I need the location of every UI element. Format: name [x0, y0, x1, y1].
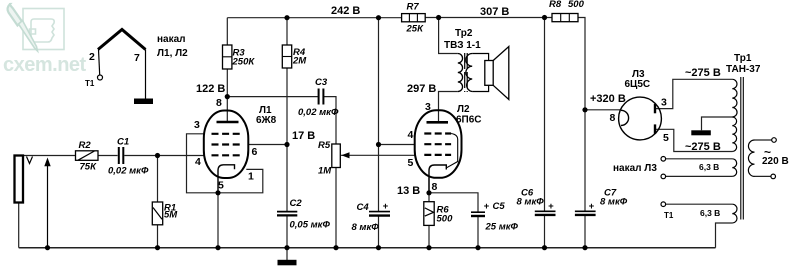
node dot L2 screen	[376, 142, 381, 147]
capacitor C6 8uF polarized	[535, 210, 556, 212]
wire R8 right to +320 corner	[578, 18, 585, 110]
wire C7 top lead	[584, 110, 586, 212]
svg-text:Л2: Л2	[457, 104, 470, 115]
wire C7 bottom to rail	[584, 215, 586, 248]
svg-text:+320 В: +320 В	[590, 93, 626, 105]
svg-text:Тр1: Тр1	[734, 53, 752, 64]
svg-text:Т1: Т1	[85, 79, 95, 88]
wire R2 to C1	[98, 155, 118, 157]
svg-text:накал: накал	[157, 34, 186, 45]
wire 242V top rail	[227, 17, 401, 19]
svg-text:8: 8	[610, 112, 616, 124]
svg-text:5: 5	[218, 180, 224, 192]
svg-text:8 мкФ: 8 мкФ	[517, 197, 545, 208]
svg-text:C5: C5	[493, 201, 506, 212]
node dot L1 cathode	[215, 190, 220, 195]
transformer Tp2 TVZ1-1	[458, 47, 509, 100]
resistor R6 500	[424, 202, 434, 226]
Tp2 core	[465, 53, 468, 92]
wire C5 bottom to rail	[477, 216, 479, 248]
Tp2 primary winding	[458, 54, 463, 92]
svg-text:8 мкФ: 8 мкФ	[600, 197, 628, 208]
wire Tp2 primary bottom lead to L2 plate	[439, 92, 458, 123]
svg-text:накал Л3: накал Л3	[613, 163, 657, 174]
capacitor C1 0.02	[119, 147, 124, 164]
resistor R3 250K	[223, 45, 232, 69]
wire R5 wiper to L2 grid pin5	[341, 154, 415, 156]
wire R1 top lead	[157, 156, 159, 203]
wire heater L3 winding leads	[666, 159, 733, 177]
svg-text:0,05 мкФ: 0,05 мкФ	[290, 220, 331, 231]
svg-text:13 В: 13 В	[397, 185, 420, 197]
resistor R8 500	[552, 14, 578, 22]
svg-text:Л1, Л2: Л1, Л2	[157, 48, 188, 59]
capacitor C7 8uF polarized	[575, 210, 596, 212]
node dot rail C5	[475, 245, 480, 250]
tube L3 6Ts5S rectifier	[619, 97, 662, 140]
svg-text:3: 3	[194, 119, 200, 131]
svg-text:25 мкФ: 25 мкФ	[485, 222, 519, 233]
svg-text:Т1: Т1	[664, 211, 674, 220]
svg-text:8: 8	[432, 181, 438, 193]
svg-text:8: 8	[216, 97, 222, 109]
Tp1 heater L3 winding	[732, 159, 736, 177]
heater filament L1 L2	[98, 30, 146, 50]
wire L2 screen feed from 242V rail	[378, 18, 380, 145]
wire C4 bottom to rail	[378, 216, 380, 248]
svg-text:220 В: 220 В	[762, 156, 789, 167]
svg-text:3: 3	[425, 101, 431, 113]
resistor R1 5M	[152, 202, 162, 225]
wire screen node down to C4	[378, 145, 380, 212]
tube L1 envelope	[204, 111, 249, 179]
tube L2 6P6S	[415, 110, 462, 193]
svg-text:R7: R7	[407, 2, 420, 13]
tube L1 grid g1 dashes	[212, 154, 240, 156]
svg-text:0,02 мкФ: 0,02 мкФ	[108, 166, 149, 177]
svg-text:7: 7	[134, 52, 140, 64]
svg-text:122 В: 122 В	[196, 83, 225, 95]
wire 13V node to C5	[429, 193, 478, 212]
wire C1 to L1 grid pin4	[124, 155, 204, 157]
tube L2 screen grid dashes	[424, 143, 451, 145]
speaker BA1 coil box	[485, 61, 493, 86]
node dot Tp2 feed rail	[436, 15, 441, 20]
svg-text:5: 5	[408, 157, 414, 169]
svg-text:Тр2: Тр2	[455, 28, 473, 39]
wire L1 pin3 bracket to cathode junction	[187, 134, 219, 193]
wire L3 anode pin5 to HV winding bottom	[655, 129, 732, 151]
node dot rail R6	[426, 245, 431, 250]
Tp1 T1 heater winding	[732, 204, 737, 223]
svg-text:C3: C3	[315, 77, 328, 88]
svg-text:6,3 В: 6,3 В	[700, 208, 720, 218]
tube L2 control grid dashes	[424, 154, 451, 156]
wire T1 winding top lead	[666, 203, 733, 205]
node dot rail R1	[155, 245, 160, 250]
tube L1 6Zh8	[204, 111, 249, 193]
svg-text:+: +	[548, 201, 554, 212]
capacitor C4 8uF polarized	[369, 211, 390, 213]
wire ground stub center	[286, 248, 288, 260]
wire L2 cathode to 13V node	[428, 178, 430, 193]
node dot L2 cathode 13V	[426, 190, 431, 195]
svg-text:500: 500	[568, 0, 585, 10]
wire L1 pin1 bracket to cathode junction	[218, 169, 263, 192]
svg-text:C1: C1	[117, 137, 129, 148]
wire input line jack to R2	[23, 155, 76, 157]
speaker BA1 cone	[493, 47, 509, 100]
node dot rail C2	[284, 245, 289, 250]
wire 122V node to C3	[227, 96, 318, 98]
Tp1 core	[741, 77, 744, 220]
wire jack bottom to rail	[18, 203, 20, 248]
svg-text:17 В: 17 В	[292, 130, 315, 142]
tube L3 anode top bar pin3	[654, 104, 656, 114]
potentiometer R5 1M	[332, 144, 341, 168]
tube L2 cathode	[429, 165, 446, 193]
tube L1 cathode	[218, 165, 235, 193]
capacitor C2 0.05	[277, 211, 297, 213]
terminal circle T1 heater	[98, 75, 103, 80]
wire R6 leads	[428, 193, 430, 248]
svg-text:C4: C4	[357, 202, 370, 213]
svg-text:8 мкФ: 8 мкФ	[352, 222, 380, 233]
wire bottom ground rail	[19, 247, 716, 249]
tube L2 envelope	[415, 110, 462, 178]
svg-text:297 В: 297 В	[407, 83, 436, 95]
node dot R4 rail	[284, 15, 289, 20]
svg-text:4: 4	[408, 129, 414, 141]
wire L3 anode pin3 to HV winding top	[655, 79, 732, 108]
Tp1 HV winding top	[732, 79, 737, 117]
svg-text:+: +	[383, 201, 389, 212]
wire HV center tap to ground bar	[702, 117, 733, 130]
ground bar heater	[134, 99, 153, 105]
svg-text:ТВЗ 1-1: ТВЗ 1-1	[444, 40, 481, 51]
tube L1 grid g2 dashes	[212, 143, 240, 145]
svg-text:+: +	[484, 201, 490, 212]
wire filament to T1 terminal	[99, 50, 100, 76]
svg-text:cxem.net: cxem.net	[3, 54, 87, 76]
svg-text:3: 3	[661, 97, 667, 109]
tube L1 grid g3 dashes	[212, 133, 240, 135]
wire Tp2 primary top lead from 307V rail	[439, 18, 458, 54]
svg-text:5: 5	[663, 132, 669, 144]
node dot C6 rail	[542, 15, 547, 20]
svg-text:2: 2	[89, 51, 95, 63]
Tp2 secondary winding	[466, 54, 472, 92]
wire L1 pin6 to 17V node	[248, 144, 287, 146]
tube L2 beam plate dashes	[424, 132, 451, 134]
ground bar main below rail	[278, 260, 297, 266]
wire L1 cathode to rail	[217, 193, 219, 248]
svg-text:R8: R8	[549, 0, 562, 10]
svg-text:R2: R2	[79, 140, 92, 151]
resistor R2 75K	[76, 151, 99, 161]
node dot +320	[582, 107, 587, 112]
wire R3 top lead	[226, 18, 228, 45]
terminal circle 220V bottom	[771, 174, 776, 179]
watermark cxem.net	[3, 4, 87, 76]
wire R3 bottom lead to 122V node	[226, 69, 228, 97]
svg-text:75К: 75К	[80, 162, 98, 173]
wire 17V node to C2	[286, 145, 288, 212]
tube L2 plate bar	[427, 121, 449, 124]
tube L2 beam plate to cathode link	[447, 134, 458, 168]
node dot rail x47	[45, 245, 50, 250]
svg-text:242 В: 242 В	[331, 5, 360, 17]
terminal circle heater L3 top	[661, 157, 666, 162]
svg-text:307 В: 307 В	[480, 6, 509, 18]
Tp1 220V primary winding	[748, 140, 754, 176]
capacitor C5 25uF polarized	[471, 211, 485, 213]
svg-text:250К: 250К	[232, 57, 256, 68]
node dot rail L1 cathode	[215, 245, 220, 250]
resistor R7 25K	[402, 14, 426, 22]
svg-text:1М: 1М	[318, 166, 332, 177]
tube L3 envelope circle	[619, 97, 662, 140]
svg-text:6: 6	[252, 146, 258, 158]
wire T1 winding bottom to rail	[716, 223, 733, 248]
svg-text:2М: 2М	[292, 56, 307, 67]
wire filament pin7 to ground	[145, 50, 147, 99]
wire R4 bottom lead to screen node 17V	[286, 68, 288, 145]
svg-text:R5: R5	[318, 140, 331, 151]
resistor R4 2M	[282, 45, 291, 68]
tube L1 plate bar	[217, 121, 239, 124]
svg-text:25К: 25К	[406, 24, 425, 35]
node dot C1 R1	[155, 153, 160, 158]
svg-text:6,3 В: 6,3 В	[699, 162, 719, 172]
svg-text:~275 В: ~275 В	[685, 141, 721, 153]
svg-text:ТАН-37: ТАН-37	[726, 64, 761, 75]
wire screen node to L2 pin4	[379, 144, 415, 146]
wire R1 bottom lead	[157, 225, 159, 248]
input socket V mark	[27, 157, 33, 164]
wire C3 to R5 top	[324, 97, 336, 144]
terminal circle heater L3 bottom	[661, 174, 666, 179]
svg-text:5М: 5М	[164, 210, 178, 221]
svg-text:500: 500	[437, 214, 454, 225]
svg-text:6Ж8: 6Ж8	[256, 115, 277, 126]
capacitor C3 0.02	[319, 89, 324, 105]
input jack X1	[15, 156, 24, 203]
wire R4 top lead	[286, 18, 288, 45]
svg-text:+: +	[589, 201, 595, 212]
terminal circle 220V top	[772, 138, 777, 143]
node dot rail R5	[333, 245, 338, 250]
svg-text:~275 В: ~275 В	[685, 67, 721, 79]
node dot rail C4	[376, 245, 381, 250]
svg-text:6Ц5С: 6Ц5С	[625, 79, 651, 90]
svg-text:6П6С: 6П6С	[456, 115, 482, 126]
svg-text:1: 1	[248, 171, 254, 183]
svg-text:C2: C2	[290, 198, 303, 209]
ground bar HV center tap	[691, 130, 711, 135]
wire +320 to L3 cathode	[585, 109, 621, 111]
Tp1 HV winding bottom	[732, 117, 736, 152]
wire C6 from 307V rail down	[544, 18, 546, 212]
svg-text:0,02 мкФ: 0,02 мкФ	[298, 107, 339, 118]
wire R5 bottom to rail	[335, 168, 337, 248]
wire C2 bottom to rail	[286, 215, 288, 247]
node dot rail C6	[542, 245, 547, 250]
svg-text:4: 4	[195, 156, 201, 168]
node dot 17V	[284, 142, 289, 147]
node dot rail C7	[582, 245, 587, 250]
tube L3 cathode arc	[621, 110, 629, 125]
wire 220V winding leads	[755, 140, 772, 176]
wire C6 bottom to rail	[544, 215, 546, 248]
transformer Tp1 TAN-37	[661, 77, 776, 223]
wire L1 plate lead	[226, 97, 228, 122]
input plug arrow	[47, 163, 49, 248]
wire Tp2 secondary to speaker	[472, 54, 488, 92]
terminal circle T1 winding	[661, 202, 666, 207]
tube L3 anode bottom bar pin5	[654, 124, 656, 133]
node dot 122V	[225, 94, 230, 99]
heater circuit top-left	[98, 30, 154, 105]
wire 307V rail	[425, 17, 552, 19]
node dot screen feed rail	[376, 15, 381, 20]
